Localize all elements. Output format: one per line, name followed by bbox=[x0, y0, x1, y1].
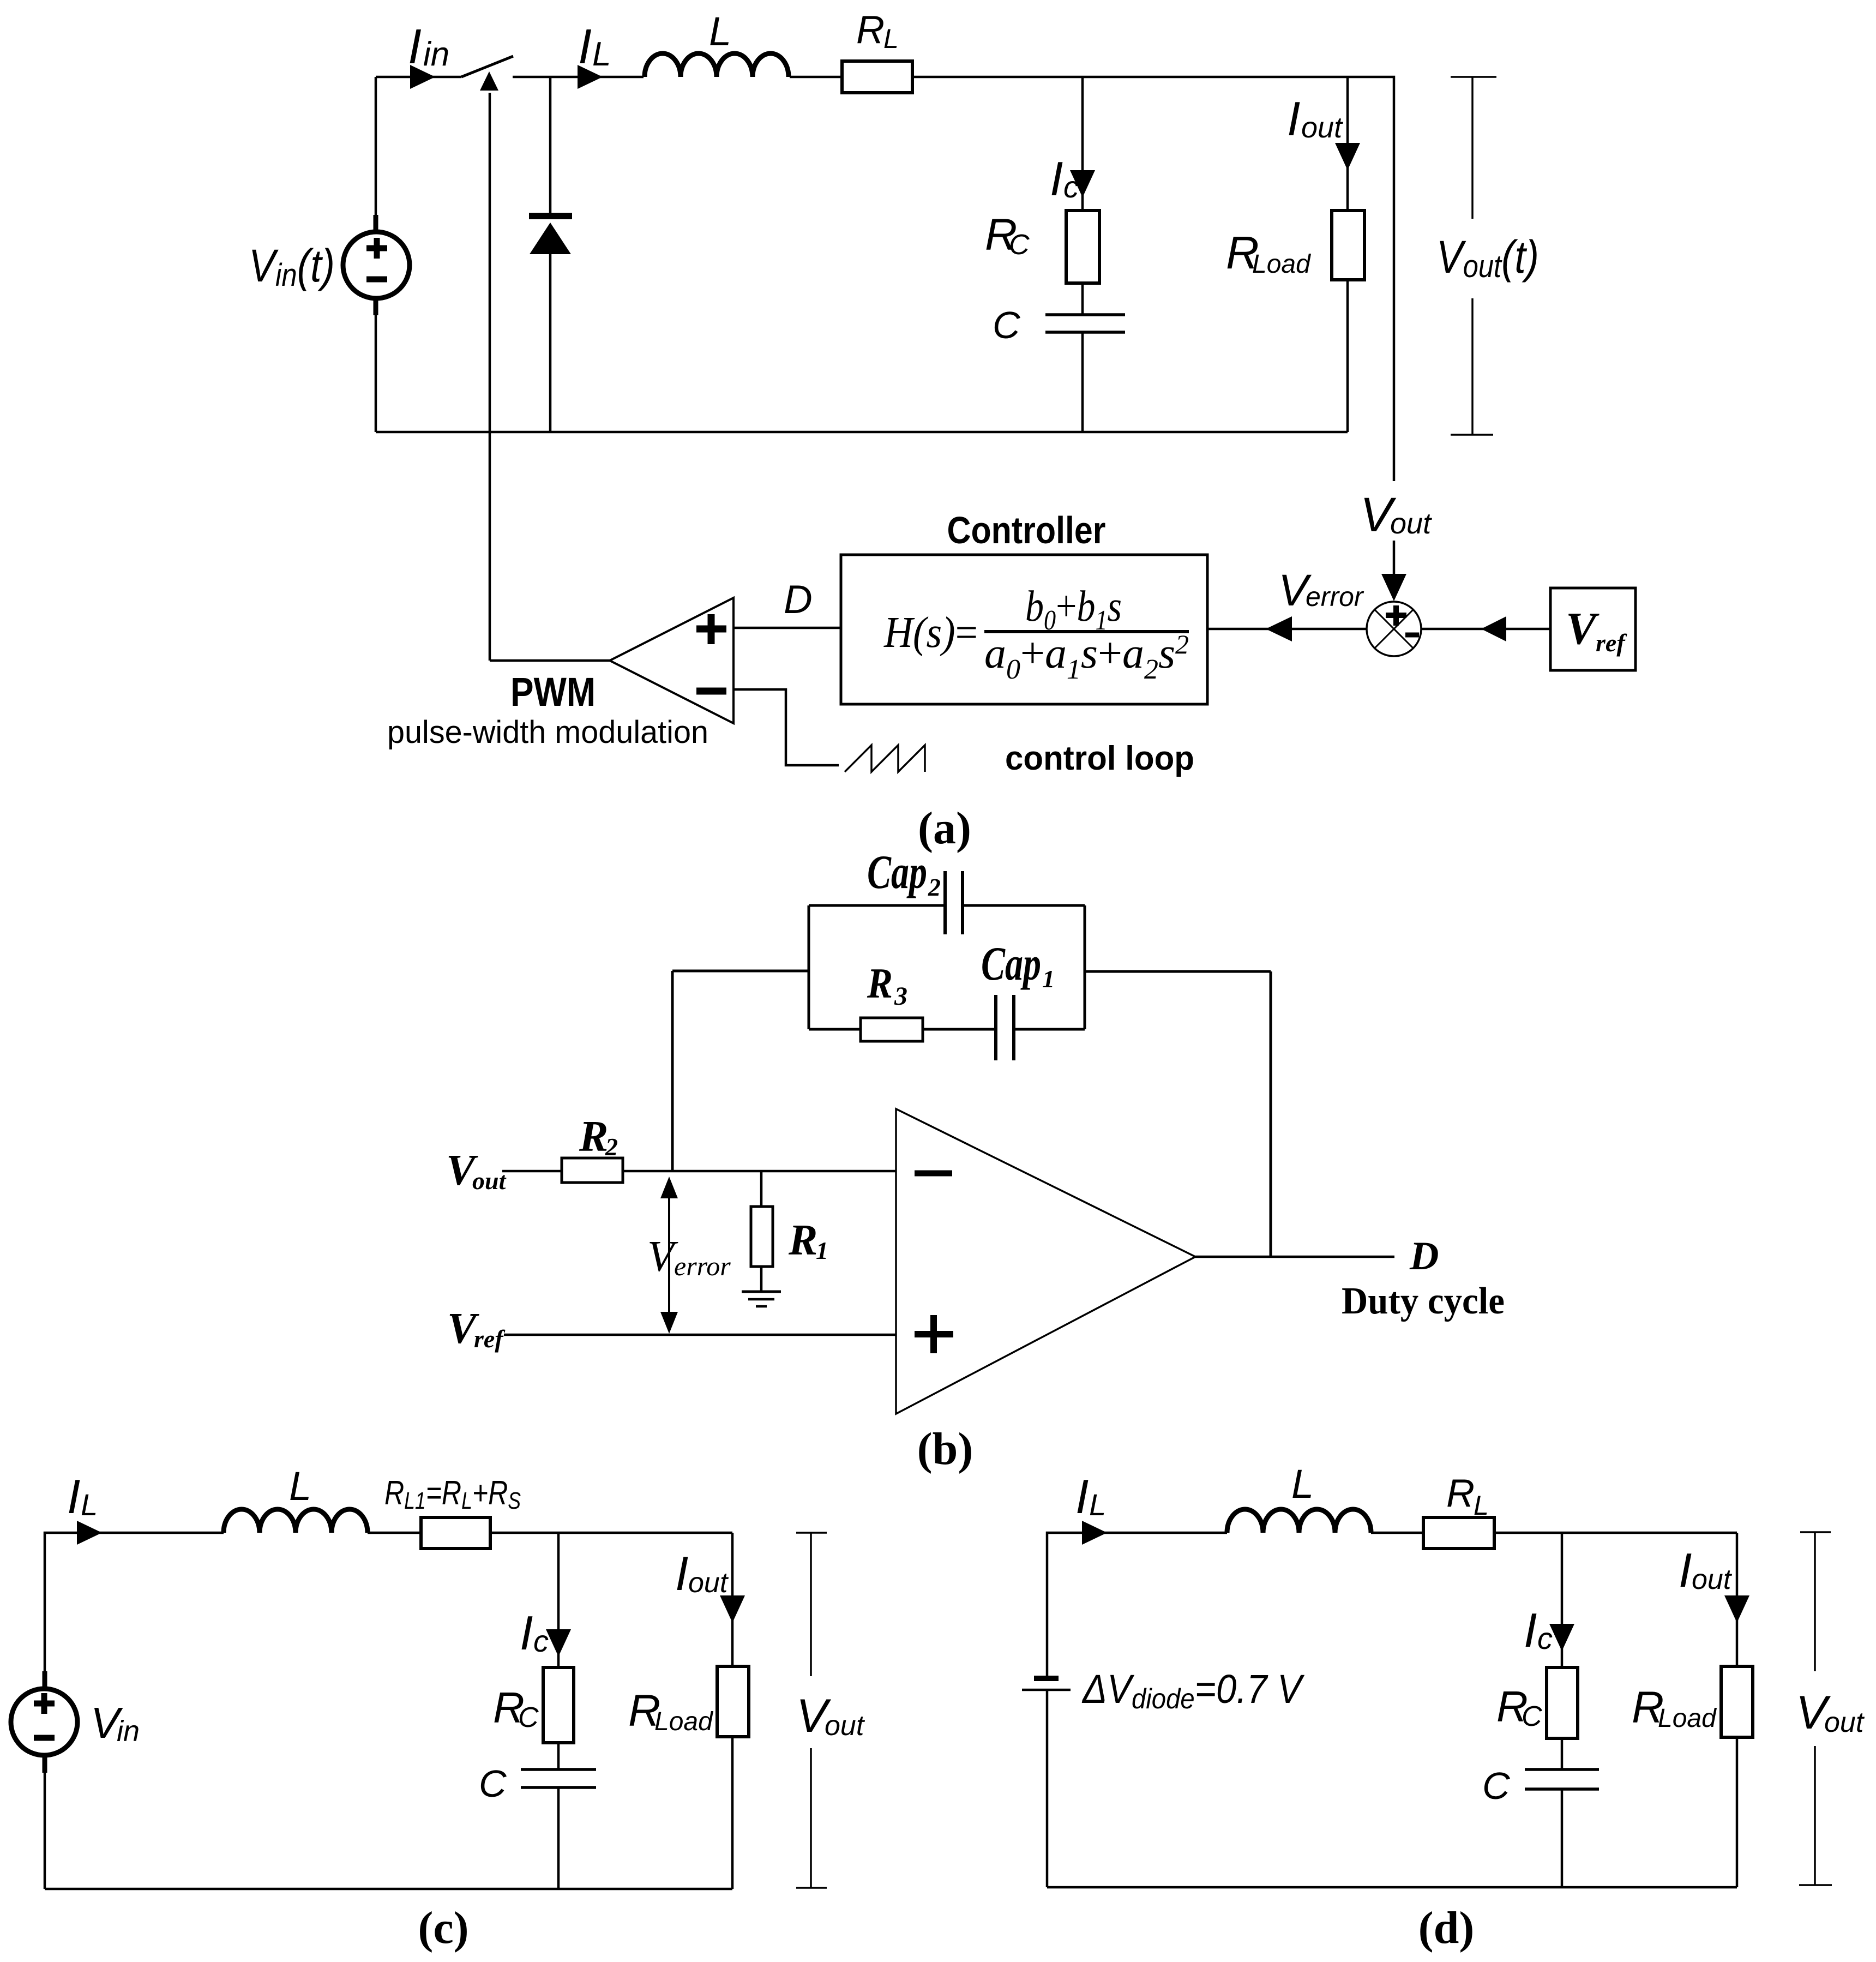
svg-text:Load: Load bbox=[654, 1707, 713, 1736]
svg-text:R: R bbox=[579, 1113, 608, 1161]
svg-text:R: R bbox=[788, 1216, 817, 1264]
svg-text:in: in bbox=[117, 1715, 140, 1748]
svg-text:c: c bbox=[533, 1624, 549, 1658]
svg-text:L: L bbox=[1291, 1461, 1314, 1507]
svg-text:2: 2 bbox=[928, 873, 941, 901]
svg-text:1: 1 bbox=[1042, 965, 1055, 993]
svg-text:pulse-width modulation: pulse-width modulation bbox=[387, 715, 708, 750]
svg-text:(b): (b) bbox=[917, 1424, 973, 1474]
svg-text:out: out bbox=[1390, 507, 1432, 540]
svg-text:in: in bbox=[423, 35, 449, 73]
svg-text:(d): (d) bbox=[1418, 1903, 1475, 1953]
svg-text:out: out bbox=[688, 1567, 729, 1599]
svg-text:C: C bbox=[1522, 1701, 1542, 1732]
svg-text:out: out bbox=[1824, 1707, 1865, 1738]
svg-text:Controller: Controller bbox=[947, 509, 1106, 551]
svg-text:V: V bbox=[1566, 603, 1600, 654]
svg-text:C: C bbox=[518, 1702, 539, 1733]
svg-text:Cap: Cap bbox=[981, 938, 1041, 991]
svg-text:Load: Load bbox=[1658, 1704, 1717, 1733]
svg-text:Duty cycle: Duty cycle bbox=[1342, 1280, 1505, 1322]
svg-text:PWM: PWM bbox=[510, 669, 596, 715]
svg-text:I: I bbox=[1050, 152, 1063, 206]
svg-text:H(s)=: H(s)= bbox=[883, 609, 978, 657]
svg-text:L: L bbox=[883, 23, 899, 54]
svg-text:I: I bbox=[408, 20, 422, 74]
svg-text:L: L bbox=[289, 1463, 311, 1509]
svg-text:L: L bbox=[1474, 1490, 1489, 1521]
svg-text:error: error bbox=[674, 1251, 731, 1281]
svg-text:control loop: control loop bbox=[1005, 740, 1194, 777]
svg-text:D: D bbox=[1409, 1234, 1439, 1279]
svg-text:C: C bbox=[1009, 229, 1030, 261]
svg-text:c: c bbox=[1537, 1621, 1553, 1655]
svg-text:L: L bbox=[709, 9, 731, 54]
svg-text:R: R bbox=[1446, 1472, 1475, 1515]
svg-text:I: I bbox=[1287, 92, 1300, 146]
svg-text:Cap: Cap bbox=[867, 846, 927, 899]
svg-text:I: I bbox=[67, 1469, 80, 1523]
svg-text:c: c bbox=[1063, 170, 1079, 204]
svg-text:C: C bbox=[1482, 1765, 1510, 1807]
svg-text:error: error bbox=[1306, 581, 1364, 612]
svg-text:1: 1 bbox=[816, 1237, 828, 1264]
svg-text:I: I bbox=[1075, 1469, 1089, 1523]
svg-text:(c): (c) bbox=[418, 1903, 468, 1953]
svg-text:I: I bbox=[578, 20, 592, 74]
svg-text:I: I bbox=[1679, 1543, 1692, 1597]
svg-text:I: I bbox=[675, 1546, 688, 1600]
svg-text:C: C bbox=[479, 1762, 507, 1805]
svg-text:2: 2 bbox=[605, 1133, 618, 1161]
svg-text:I: I bbox=[520, 1606, 533, 1660]
svg-text:R: R bbox=[856, 8, 885, 52]
svg-text:ref: ref bbox=[1596, 629, 1627, 657]
svg-text:out: out bbox=[472, 1167, 507, 1195]
svg-text:b0+b1s: b0+b1s bbox=[1025, 583, 1122, 636]
svg-text:3: 3 bbox=[894, 982, 907, 1011]
svg-text:L: L bbox=[81, 1487, 98, 1522]
svg-text:I: I bbox=[1524, 1603, 1537, 1657]
svg-text:out: out bbox=[1692, 1564, 1733, 1595]
svg-text:C: C bbox=[993, 304, 1020, 346]
svg-text:D: D bbox=[784, 578, 813, 622]
svg-text:L: L bbox=[592, 35, 611, 73]
svg-text:out: out bbox=[825, 1710, 865, 1742]
svg-text:R: R bbox=[867, 959, 893, 1007]
svg-text:Load: Load bbox=[1252, 250, 1311, 279]
svg-text:L: L bbox=[1089, 1487, 1106, 1522]
svg-text:ref: ref bbox=[474, 1325, 506, 1353]
svg-text:out: out bbox=[1301, 111, 1343, 144]
